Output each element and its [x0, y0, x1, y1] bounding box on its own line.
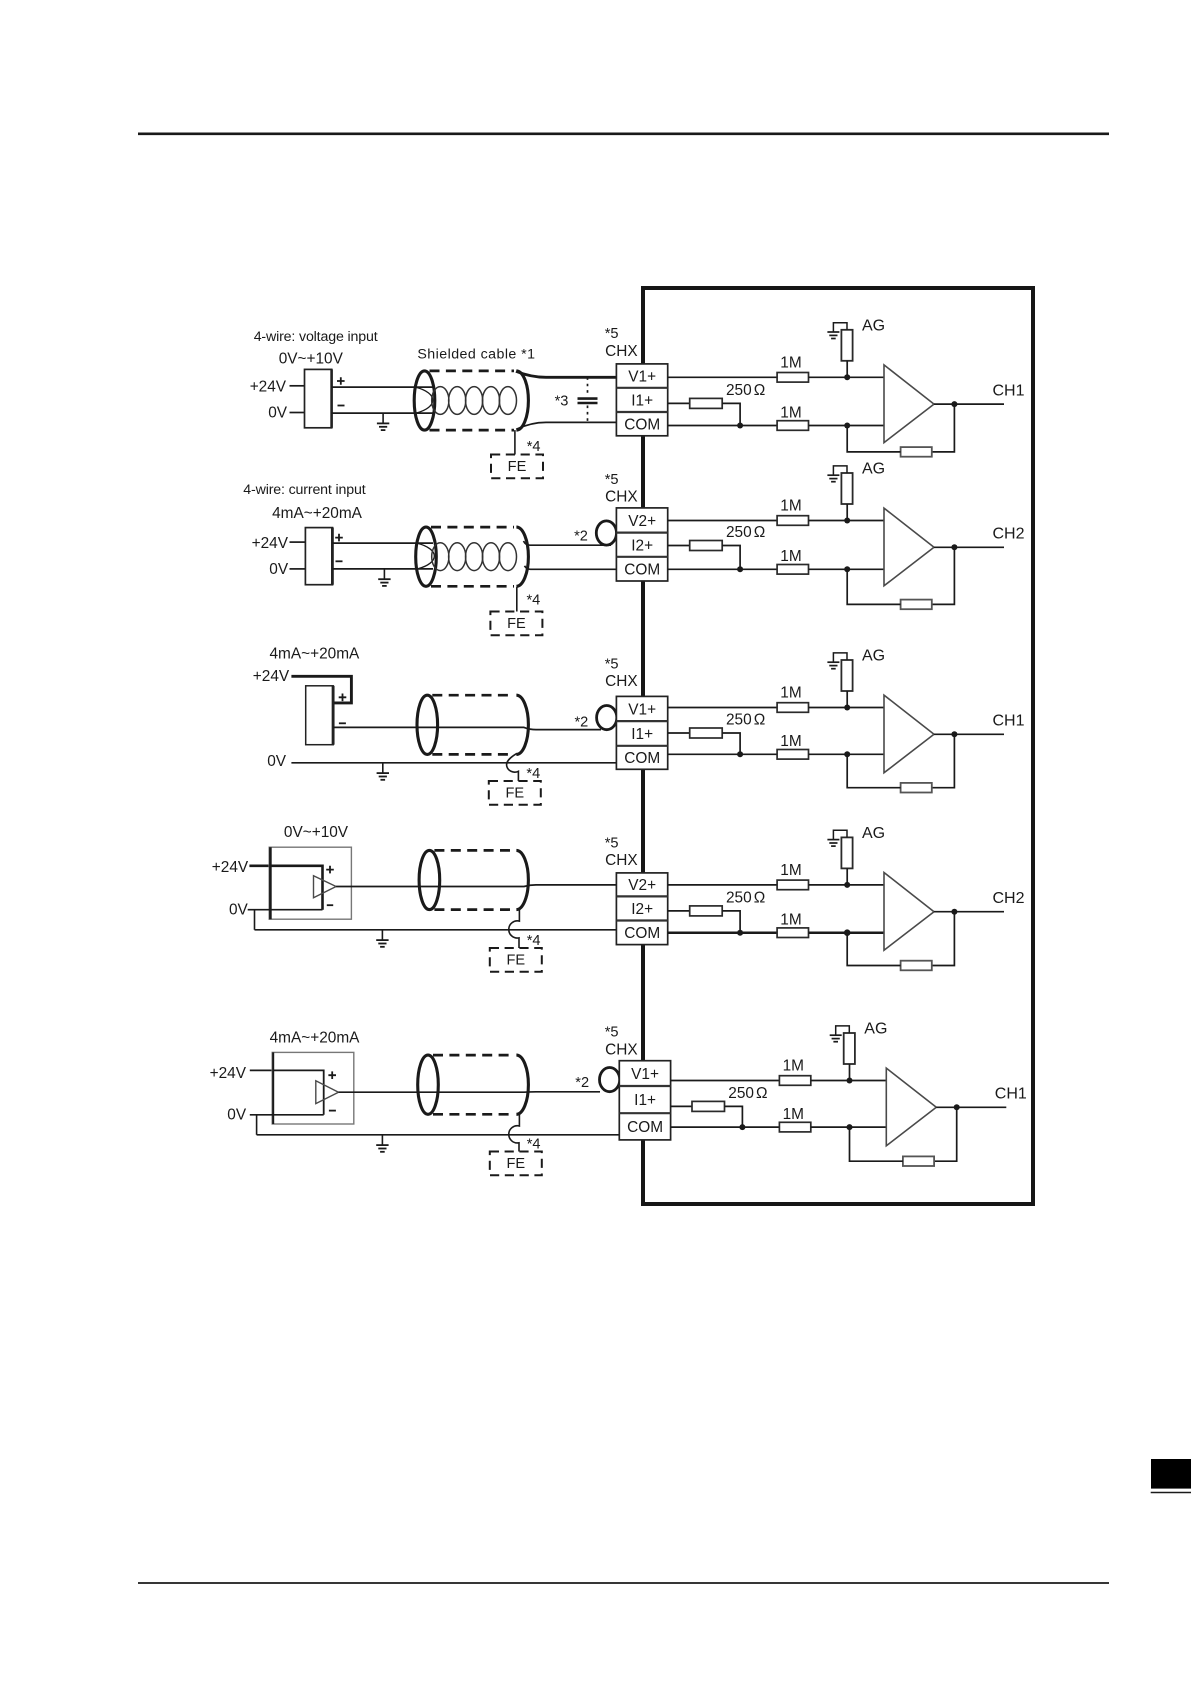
ground AG (ch2) [827, 466, 847, 482]
svg-text:+24V: +24V [252, 535, 289, 552]
label plus (ckt5) [328, 1071, 336, 1079]
terminal divider 2 (blk3) [616, 745, 667, 747]
resistor AG (ch5) [844, 1033, 855, 1064]
cable shield left ellipse (ckt3) [417, 695, 438, 754]
wire 1M to node (ch3) [809, 707, 885, 709]
wire 1M to node2 (ch1) [809, 425, 885, 427]
svg-text:COM: COM [624, 417, 660, 434]
svg-text:CH1: CH1 [995, 1086, 1027, 1103]
node COM junction (ch2) [737, 566, 743, 572]
wire I terminal to 250 (ch3) [668, 732, 690, 734]
ground AG (ch4) [827, 830, 847, 846]
wire 1M to node (ch1) [809, 376, 885, 378]
wire 250 to corner (ch2) [722, 546, 740, 570]
svg-text:1M: 1M [780, 733, 801, 750]
svg-text:COM: COM [624, 562, 660, 579]
terminal divider 1 (blk1) [616, 387, 667, 389]
terminal block CH2 [616, 508, 667, 581]
wire cable to jumper (ckt2) [524, 541, 612, 545]
terminal block CH4 [616, 873, 667, 945]
svg-text:*5: *5 [605, 472, 619, 488]
terminal divider 2 (blk2) [616, 556, 667, 558]
wire COM terminal to 1M (ch4) [668, 931, 777, 934]
cable dashed outline bottom (ckt1) [430, 429, 515, 432]
wire +24V stub (ckt1) [290, 385, 305, 387]
svg-text:AG: AG [862, 825, 885, 842]
node COM junction (ch3) [737, 751, 743, 757]
svg-text:+24V: +24V [210, 1065, 247, 1082]
ground AG (ch3) [827, 653, 847, 669]
svg-text:I1+: I1+ [631, 393, 653, 410]
wire I terminal to 250 (ch1) [668, 402, 690, 404]
svg-text:AG: AG [862, 317, 885, 334]
cable twisted coils (ckt1) [432, 387, 517, 415]
resistor 1M lower (ch3) [777, 750, 808, 760]
wire AG resistor to node (ch4) [846, 868, 848, 885]
capacitor *3 dotted link (ckt1) [587, 377, 589, 422]
terminal divider 1 (blk4) [616, 895, 667, 897]
cable dashed outline top (ckt3) [432, 694, 514, 697]
node output (ch1) [951, 401, 957, 407]
svg-text:250Ω: 250Ω [726, 382, 765, 399]
wire 1M to node2 (ch5) [811, 1126, 887, 1128]
transmitter left edge bold (ckt5) [272, 1052, 274, 1124]
resistor 1M lower (ch2) [777, 565, 808, 575]
label minus (ckt4) [327, 904, 333, 906]
svg-text:0V~+10V: 0V~+10V [279, 350, 344, 367]
wire 250 to corner (ch4) [722, 911, 740, 933]
svg-text:COM: COM [627, 1119, 663, 1136]
wire feedback left (ch2) [847, 569, 900, 604]
node output (ch3) [951, 731, 957, 737]
svg-text:*5: *5 [605, 1024, 619, 1040]
module enclosure box [643, 288, 1033, 1204]
cable shield right arc (ckt1) [516, 371, 528, 430]
wire 250 to corner (ch3) [722, 733, 740, 754]
svg-text:COM: COM [624, 750, 660, 767]
node V junction (ch5) [847, 1078, 853, 1084]
resistor 1M lower (ch5) [779, 1122, 810, 1132]
label minus (ckt1) [338, 405, 345, 407]
label plus (ckt4) [326, 866, 334, 874]
resistor feedback (ch1) [901, 447, 932, 457]
svg-text:1M: 1M [780, 498, 801, 515]
wire op-amp output (ch2) [934, 546, 1004, 548]
FE earth box (ckt1) [491, 455, 543, 479]
wire cable to COM (ckt1) [516, 422, 617, 429]
resistor 1M upper (ch1) [777, 373, 808, 383]
wire cable to V1+ bold (ckt1) [516, 371, 617, 377]
node output (ch4) [951, 909, 957, 915]
resistor AG (ch2) [841, 473, 852, 504]
wire I terminal to 250 (ch4) [668, 910, 690, 912]
wire source- to cable (ckt1) [332, 412, 433, 414]
svg-text:250Ω: 250Ω [726, 712, 765, 729]
svg-text:0V: 0V [267, 753, 287, 770]
resistor 1M upper (ch5) [779, 1076, 810, 1086]
page tab black marker [1151, 1459, 1191, 1489]
label minus (ckt3) [339, 722, 346, 724]
transmitter left edge bold (ckt4) [269, 847, 272, 919]
ground symbol (ckt2) [378, 569, 390, 586]
svg-text:*2: *2 [574, 529, 588, 545]
svg-text:FE: FE [507, 616, 526, 632]
svg-text:CHX: CHX [605, 1042, 638, 1059]
wire op-amp output (ch3) [934, 733, 1004, 735]
svg-text:*2: *2 [575, 1075, 589, 1091]
wire 0V to minus rail (ckt4) [248, 909, 323, 911]
svg-text:CH2: CH2 [993, 890, 1025, 907]
svg-text:AG: AG [864, 1021, 887, 1038]
wire 0V to minus rail (ckt5) [250, 1114, 324, 1116]
resistor 1M upper (ch3) [777, 703, 808, 713]
svg-text:AG: AG [862, 648, 885, 665]
wire feedback left (ch4) [847, 933, 900, 966]
svg-text:4-wire: current input: 4-wire: current input [243, 482, 365, 498]
wire V terminal to 1M (ch1) [668, 376, 777, 378]
svg-text:*4: *4 [527, 439, 541, 455]
wire op-amp output (ch4) [934, 911, 1004, 913]
cable shield left ellipse (ckt4) [419, 850, 440, 909]
wire 0V rail (ckt5) [257, 1134, 620, 1136]
wire cable to COM (ckt2) [525, 566, 617, 570]
terminal divider 2 (blk4) [616, 919, 667, 921]
ground symbol (ckt5) [376, 1135, 388, 1152]
wire amp output through cable (ckt5) [339, 1091, 601, 1093]
svg-text:CH1: CH1 [993, 713, 1025, 730]
wire +24V feed bold (ckt4) [249, 866, 322, 910]
svg-text:0V: 0V [268, 405, 288, 422]
source box right edge bold (ckt1) [330, 369, 333, 427]
op-amp (ch5) [886, 1068, 936, 1146]
wire 0V drop (ckt5) [256, 1115, 258, 1135]
wire 1M to node (ch4) [809, 884, 885, 886]
svg-text:1M: 1M [780, 354, 801, 371]
wire 0V drop (ckt4) [254, 910, 256, 930]
wire 1M to node (ch5) [811, 1080, 887, 1082]
terminal block CH1 [616, 364, 667, 436]
wire V terminal to 1M (ch4) [668, 884, 777, 886]
svg-text:*5: *5 [605, 656, 619, 672]
wire COM terminal to 1M (ch1) [668, 425, 777, 427]
resistor feedback (ch2) [901, 600, 932, 610]
resistor AG (ch3) [841, 660, 852, 691]
cable shield left ellipse (ckt5) [418, 1055, 439, 1114]
svg-text:CHX: CHX [605, 343, 638, 360]
terminal divider 2 (blk5) [619, 1112, 670, 1114]
svg-text:1M: 1M [780, 685, 801, 702]
cable shield right arc (ckt3) [516, 695, 528, 754]
svg-text:0V: 0V [227, 1106, 247, 1123]
node V junction (ch1) [844, 374, 850, 380]
svg-text:V1+: V1+ [631, 1066, 659, 1083]
cable shield inner opening (ckt2) [417, 543, 434, 569]
resistor 1M lower (ch1) [777, 421, 808, 431]
svg-text:*4: *4 [527, 1137, 541, 1153]
ground AG (ch1) [827, 323, 847, 339]
svg-text:+24V: +24V [253, 668, 290, 685]
ground symbol (ckt4) [376, 930, 388, 947]
cable dashed outline bottom (ckt2) [431, 585, 514, 588]
cable dashed outline bottom (ckt5) [433, 1113, 514, 1116]
resistor feedback (ch5) [903, 1156, 934, 1166]
svg-text:+24V: +24V [250, 379, 287, 396]
wire feedback left (ch1) [847, 426, 900, 452]
wire feedback left (ch3) [847, 754, 900, 787]
svg-text:V2+: V2+ [628, 877, 656, 894]
wire source+ to cable (ckt2) [332, 542, 433, 544]
node output (ch2) [951, 544, 957, 550]
wire feedback down (ch4) [932, 912, 955, 966]
wire feedback left (ch5) [850, 1127, 903, 1161]
svg-text:I2+: I2+ [631, 537, 653, 554]
transmitter outer box (ckt5) [272, 1052, 354, 1124]
FE earth box (ckt2) [490, 612, 542, 636]
wire I terminal to 250 (ch2) [668, 545, 690, 547]
svg-text:I2+: I2+ [631, 901, 653, 918]
svg-text:1M: 1M [783, 1106, 804, 1123]
jumper loop *2 (blk3) [597, 706, 617, 730]
node COM junction (ch4) [737, 930, 743, 936]
resistor AG (ch1) [841, 330, 852, 361]
node V junction (ch3) [844, 705, 850, 711]
node output (ch5) [954, 1104, 960, 1110]
source box right edge bold (ckt3) [332, 686, 335, 745]
svg-text:*3: *3 [555, 394, 569, 410]
label plus (ckt2) [335, 534, 343, 542]
svg-text:*4: *4 [526, 766, 540, 782]
jumper loop *2 (blk2) [596, 521, 616, 545]
svg-text:0V: 0V [229, 901, 249, 918]
svg-text:1M: 1M [780, 404, 801, 421]
cable twisted coils (ckt2) [432, 543, 517, 571]
svg-text:+24V: +24V [212, 859, 249, 876]
wire 0V stub (ckt1) [290, 412, 305, 414]
label minus (ckt2) [336, 560, 343, 562]
ground AG (ch5) [830, 1026, 850, 1042]
wire V terminal to 1M (ch2) [668, 520, 777, 522]
wire 0V stub (ckt2) [290, 568, 306, 570]
svg-text:Shielded cable *1: Shielded cable *1 [417, 346, 535, 362]
svg-text:4mA~+20mA: 4mA~+20mA [270, 646, 361, 663]
wire op-amp output (ch1) [934, 403, 1004, 405]
cable shield left ellipse (ckt1) [414, 371, 435, 430]
svg-text:FE: FE [506, 1156, 525, 1172]
transmitter amp triangle (ckt4) [314, 876, 337, 898]
cable shield inner opening (ckt1) [416, 387, 433, 413]
svg-text:1M: 1M [780, 548, 801, 565]
jumper loop *2 (blk5) [600, 1068, 620, 1092]
wire 0V rail (ckt4) [255, 929, 617, 931]
resistor AG (ch4) [841, 837, 852, 868]
svg-text:4-wire: voltage input: 4-wire: voltage input [254, 329, 378, 345]
wire AG resistor to node (ch3) [846, 691, 848, 708]
label minus (ckt5) [329, 1110, 336, 1112]
ground symbol (ckt1) [377, 413, 389, 430]
wire COM terminal to 1M (ch2) [668, 568, 777, 570]
cable curl to FE (ckt3) [507, 753, 519, 781]
wire feedback down (ch5) [934, 1107, 957, 1161]
node lower input (ch3) [844, 751, 850, 757]
ground symbol (ckt3) [377, 763, 389, 780]
svg-text:V1+: V1+ [628, 701, 656, 718]
wire 1M to node2 (ch3) [809, 753, 885, 755]
resistor 250ohm (ch1) [690, 398, 723, 408]
terminal divider 1 (blk3) [616, 720, 667, 722]
svg-text:*4: *4 [527, 593, 541, 609]
cable shield right arc (ckt4) [516, 850, 528, 909]
terminal divider 2 (blk1) [616, 411, 667, 413]
wire AG resistor to node (ch2) [846, 504, 848, 521]
wire feedback down (ch1) [932, 404, 955, 452]
cable shield right arc (ckt5) [516, 1055, 528, 1114]
svg-text:CHX: CHX [605, 489, 638, 506]
resistor 250ohm (ch5) [692, 1101, 725, 1111]
svg-text:V1+: V1+ [628, 369, 656, 386]
cable dashed outline top (ckt2) [431, 526, 514, 529]
resistor 1M upper (ch2) [777, 516, 808, 526]
wire feedback down (ch3) [932, 734, 955, 787]
wire 0V rail (ckt3) [291, 762, 617, 764]
wire source- through cable (ckt3) [333, 727, 601, 729]
FE earth box (ckt3) [489, 781, 541, 805]
wire COM terminal to 1M (ch5) [671, 1126, 780, 1128]
wire FE stub (ckt1) [514, 430, 516, 454]
node lower input (ch2) [844, 566, 850, 572]
svg-text:CHX: CHX [605, 673, 638, 690]
wire feedback down (ch2) [932, 547, 955, 604]
svg-text:CH2: CH2 [993, 526, 1025, 543]
terminal block CH3 [616, 696, 667, 769]
svg-text:V2+: V2+ [628, 513, 656, 530]
cable curl to FE (ckt5) [509, 1113, 520, 1151]
source box (ckt2) [305, 528, 332, 585]
svg-text:CHX: CHX [605, 852, 638, 869]
resistor 1M upper (ch4) [777, 880, 808, 890]
cable dashed outline top (ckt1) [430, 370, 515, 373]
op-amp (ch3) [884, 695, 934, 773]
top horizontal rule [138, 133, 1109, 136]
label plus (ckt3) [339, 694, 347, 702]
wire V terminal to 1M (ch5) [671, 1080, 780, 1082]
svg-text:*2: *2 [575, 714, 589, 730]
op-amp (ch4) [884, 873, 934, 951]
resistor 1M lower (ch4) [777, 928, 808, 938]
wire 1M to node2 (ch4) [809, 931, 885, 934]
cable dashed outline top (ckt5) [433, 1054, 514, 1057]
node V junction (ch4) [844, 882, 850, 888]
node lower input (ch5) [847, 1124, 853, 1130]
svg-text:FE: FE [508, 459, 527, 475]
svg-text:CH1: CH1 [993, 383, 1025, 400]
wire AG resistor to node (ch1) [846, 361, 848, 378]
wire AG resistor to node (ch5) [849, 1064, 851, 1081]
node COM junction (ch5) [739, 1124, 745, 1130]
svg-text:250Ω: 250Ω [728, 1085, 767, 1102]
wire op-amp output (ch5) [936, 1106, 1006, 1108]
cable shield left ellipse (ckt2) [416, 527, 437, 586]
source box (ckt1) [305, 369, 332, 427]
wire +24V feed (ckt5) [250, 1070, 324, 1114]
svg-text:250Ω: 250Ω [726, 889, 765, 906]
svg-text:COM: COM [624, 925, 660, 942]
page tab underline [1151, 1492, 1191, 1494]
svg-text:I1+: I1+ [634, 1092, 656, 1109]
transmitter amp triangle (ckt5) [316, 1081, 339, 1104]
resistor 250ohm (ch2) [690, 541, 723, 551]
FE earth box (ckt5) [490, 1152, 542, 1176]
wire 1M to node (ch2) [809, 520, 885, 522]
transmitter outer box (ckt4) [269, 847, 351, 919]
svg-text:250Ω: 250Ω [726, 524, 765, 541]
cable curl to FE (ckt4) [509, 909, 520, 949]
resistor feedback (ch4) [901, 961, 932, 971]
terminal divider 1 (blk2) [616, 531, 667, 533]
svg-text:0V: 0V [269, 561, 289, 578]
svg-text:4mA~+20mA: 4mA~+20mA [270, 1030, 361, 1047]
wire I terminal to 250 (ch5) [671, 1105, 692, 1107]
op-amp (ch2) [884, 508, 934, 586]
wire V terminal to 1M (ch3) [668, 707, 777, 709]
cable shield right arc (ckt2) [516, 527, 528, 586]
cable dashed outline bottom (ckt3) [432, 753, 514, 756]
svg-text:AG: AG [862, 461, 885, 478]
wire 250 to corner (ch1) [722, 403, 740, 425]
svg-text:*5: *5 [605, 836, 619, 852]
wire 1M to node2 (ch2) [809, 568, 885, 570]
node lower input (ch1) [844, 423, 850, 429]
svg-text:I1+: I1+ [631, 726, 653, 743]
svg-text:*5: *5 [605, 326, 619, 342]
wire +24V stub (ckt2) [290, 541, 306, 543]
node V junction (ch2) [844, 518, 850, 524]
label plus (ckt1) [337, 377, 345, 385]
svg-text:1M: 1M [783, 1058, 804, 1075]
svg-text:1M: 1M [780, 912, 801, 929]
source box (ckt3) [306, 686, 334, 745]
wire amp output through cable (ckt4) [336, 885, 617, 887]
wire 250 to corner (ch5) [725, 1106, 743, 1127]
svg-text:*4: *4 [527, 933, 541, 949]
cable dashed outline top (ckt4) [434, 849, 514, 852]
capacitor *3 plates (ckt1) [578, 399, 598, 403]
cable dashed outline bottom (ckt4) [434, 908, 514, 911]
svg-text:FE: FE [505, 786, 524, 802]
svg-text:1M: 1M [780, 862, 801, 879]
svg-text:FE: FE [506, 953, 525, 969]
wire source+ to cable (ckt1) [332, 386, 433, 388]
wire source- to cable (ckt2) [332, 568, 433, 570]
node lower input (ch4) [844, 929, 851, 936]
wire COM terminal to 1M (ch3) [668, 753, 777, 755]
FE earth box (ckt4) [490, 948, 542, 972]
resistor feedback (ch3) [901, 783, 932, 793]
wire FE stub (ckt2) [516, 587, 518, 611]
resistor 250ohm (ch4) [690, 906, 723, 916]
node COM junction (ch1) [737, 423, 743, 429]
terminal block CH5 [619, 1061, 670, 1140]
source box right edge bold (ckt2) [331, 528, 334, 585]
wire +24V feed bold (ckt3) [291, 676, 351, 703]
svg-text:0V~+10V: 0V~+10V [284, 824, 349, 841]
terminal divider 1 (blk5) [619, 1085, 670, 1087]
svg-text:4mA~+20mA: 4mA~+20mA [272, 505, 363, 522]
resistor 250ohm (ch3) [690, 728, 723, 738]
op-amp (ch1) [884, 365, 934, 443]
bottom horizontal rule [138, 1582, 1109, 1584]
